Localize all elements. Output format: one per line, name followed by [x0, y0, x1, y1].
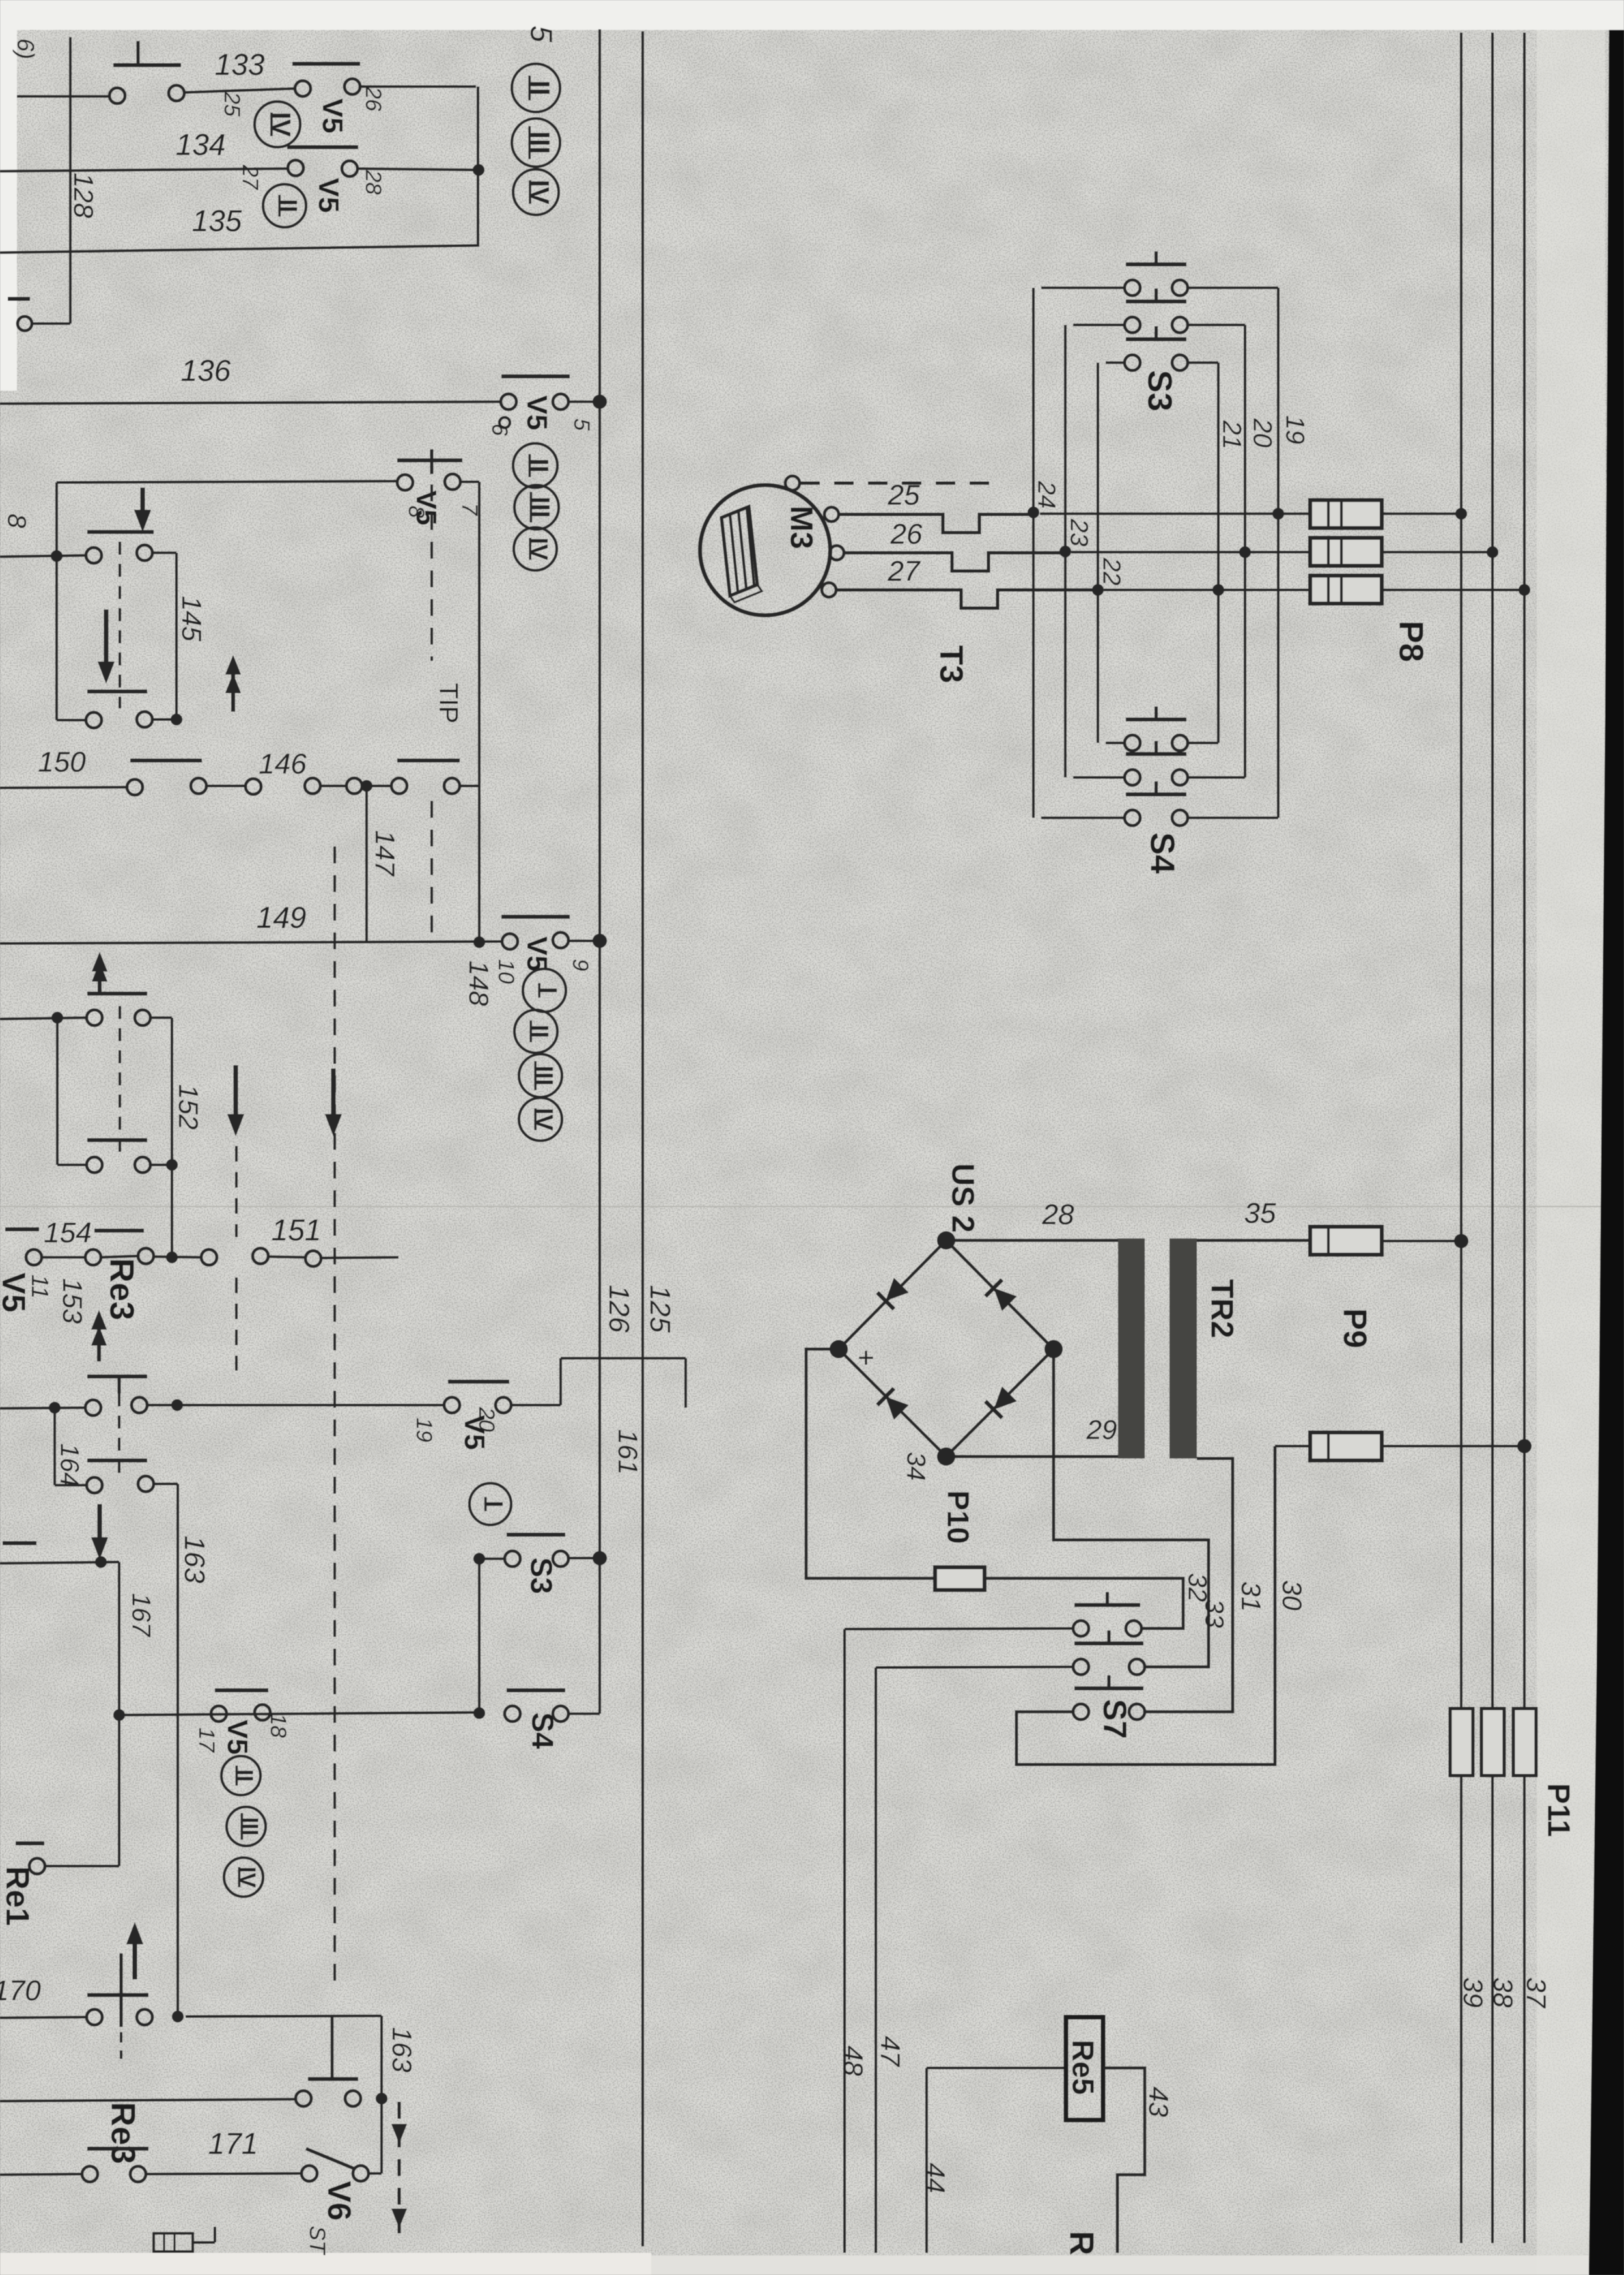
bus line 126 (B2 x=987): [641, 31, 644, 2246]
indicator circle IV (row133): [255, 102, 300, 147]
S7 row1 left wire: [845, 1628, 1073, 1629]
svg-text:25: 25: [219, 91, 244, 117]
label 126: [603, 1285, 635, 1333]
contact circle 1931e: [305, 1251, 321, 1266]
rail x271: [175, 553, 178, 719]
rail x273: [176, 1484, 179, 2018]
label 9 (1447): [568, 959, 593, 971]
bridge node bottom: [937, 1447, 955, 1466]
contact bar 133b: [292, 62, 360, 66]
svg-text:171: 171: [208, 2127, 259, 2160]
svg-text:23: 23: [1065, 518, 1092, 546]
label 154: [44, 1217, 91, 1249]
rail x183: [118, 1562, 120, 1715]
svg-text:21: 21: [1218, 420, 1246, 450]
wire P8-3 to bus: [1382, 589, 1524, 591]
contact circles 1931d: [201, 1248, 268, 1265]
label 10 (1447): [494, 959, 518, 984]
wire 1931 e: [321, 1257, 399, 1258]
indicator circle I (s3): [523, 969, 566, 1012]
fuse P11-1: [1450, 1709, 1473, 1776]
S3 right rail 19: [1277, 288, 1280, 818]
junction 134/box: [473, 164, 484, 176]
diode D3 (bottom-left): [877, 1388, 909, 1420]
contact circles 2158 (V5 19-20): [444, 1397, 511, 1413]
terminal circle row 497: [18, 316, 70, 331]
svg-text:32: 32: [1183, 1573, 1212, 1602]
label 35: [1244, 1197, 1276, 1229]
contact bar 134: [287, 145, 358, 149]
svg-text:26: 26: [890, 518, 923, 550]
bottom symbol ST: [154, 2227, 215, 2252]
bridge node left: [830, 1340, 848, 1358]
label V5 (1447): [521, 936, 553, 971]
junction 24: [1028, 507, 1039, 518]
svg-text:6: 6: [487, 424, 512, 436]
svg-text:S4: S4: [1143, 832, 1181, 874]
S4 row2 wires: [1073, 776, 1245, 779]
label 133: [215, 48, 265, 81]
wire 1447 to bus: [568, 940, 600, 942]
label 21: [1218, 420, 1246, 450]
svg-text:147: 147: [370, 830, 400, 877]
svg-text:ST: ST: [305, 2226, 329, 2255]
label 163 (rail): [178, 1535, 210, 1584]
S3 left rail 2: [1064, 325, 1067, 777]
wire 1105 corner: [152, 718, 176, 721]
dashed link from M3: [800, 482, 996, 485]
svg-text:133: 133: [215, 48, 265, 81]
wire 31 from TR2: [1145, 1459, 1233, 1712]
S3 row3 wires: [1106, 361, 1218, 364]
junction 3097/273: [172, 2011, 184, 2022]
contact bar 2281: [87, 1459, 147, 1462]
label 26: [890, 518, 923, 550]
label 22: [1097, 557, 1125, 585]
wire row 1208 left: [0, 787, 128, 788]
wire 35: [1197, 1239, 1310, 1242]
junction P8-2/38: [1487, 546, 1498, 558]
junction 1447/B1: [593, 934, 607, 948]
svg-text:S3: S3: [1140, 370, 1178, 412]
junction 1563/rail: [51, 1012, 63, 1024]
svg-text:163: 163: [178, 1535, 210, 1584]
rail x736: [478, 482, 481, 942]
svg-text:V5: V5: [521, 395, 553, 430]
label plus: [858, 1342, 875, 1374]
wire 43: [1103, 2068, 1145, 2253]
junction 20: [1239, 546, 1251, 558]
label 43: [1143, 2087, 1174, 2117]
svg-text:167: 167: [127, 1593, 156, 1638]
svg-text:125: 125: [644, 1285, 676, 1333]
contact circles 170: [87, 2009, 152, 2025]
label 17: [194, 1727, 219, 1753]
junction 2399: [95, 1556, 107, 1568]
contact circles 741 (V5 7-8): [397, 474, 460, 490]
diode D4 (bottom-right): [985, 1386, 1017, 1417]
contact bar 1931a: [5, 1227, 39, 1231]
svg-text:Re1: Re1: [0, 1866, 36, 1926]
wire 133 mid: [184, 89, 295, 92]
wire row 853 (8): [0, 555, 86, 557]
wire 134 right: [358, 169, 479, 170]
svg-text:27: 27: [238, 164, 262, 190]
svg-text:22: 22: [1097, 557, 1125, 585]
label S4: [1143, 832, 1181, 874]
S4 row1 wires: [1106, 742, 1218, 744]
svg-text:163: 163: [387, 2027, 417, 2073]
label V6: [321, 2181, 357, 2220]
left rail section2: [55, 482, 58, 720]
label S3 (lower): [524, 1557, 558, 1594]
junction 2634/183: [113, 1709, 125, 1721]
svg-text:19: 19: [412, 1417, 436, 1442]
label 27 (S1): [238, 164, 262, 190]
label 136: [181, 354, 231, 387]
label 28: [1042, 1199, 1074, 1231]
indicator circle IV (groupA): [513, 169, 559, 215]
svg-text:28: 28: [1042, 1199, 1074, 1231]
wire row 3097: [0, 2017, 87, 2018]
scanner black edge bar: [1589, 30, 1624, 2275]
terminal circle 6: [499, 417, 510, 428]
label 6 (136): [487, 424, 512, 436]
contact circles 1106: [86, 712, 152, 728]
svg-text:128: 128: [68, 173, 99, 219]
label P9: [1337, 1308, 1373, 1348]
bridge node right: [1044, 1340, 1063, 1358]
dashed actuator TIP lower: [430, 801, 433, 936]
wire P9-2 to bus: [1382, 1445, 1524, 1447]
svg-text:M3: M3: [784, 506, 819, 550]
contact circles 1563: [87, 1010, 150, 1026]
contact circles 2162: [85, 1397, 147, 1416]
label 125: [644, 1285, 676, 1333]
indicator circle IV (groupC): [519, 1098, 562, 1141]
label 11: [27, 1274, 53, 1298]
dashed actuator D2: [119, 542, 121, 708]
arrow down row853: [134, 488, 151, 532]
label 135: [192, 204, 242, 238]
wire 3338 mid: [146, 2173, 301, 2174]
S3 left rail 1: [1032, 288, 1035, 818]
rail x183 lower: [118, 1715, 120, 1866]
wire 1208 m3: [362, 785, 391, 787]
arrow down s3a: [227, 1065, 244, 1136]
svg-text:27: 27: [888, 555, 921, 587]
contact circles 1208b: [245, 778, 320, 794]
contact bar 1931b: [94, 1229, 144, 1233]
wire 128 vertical: [69, 37, 72, 324]
svg-text:T3: T3: [933, 645, 970, 683]
junction 21: [1212, 584, 1224, 596]
svg-text:5: 5: [524, 25, 558, 42]
dashed V6 actuator: [391, 2102, 407, 2245]
label 167: [127, 1593, 156, 1638]
dashed D3 below: [235, 1277, 238, 1371]
contact circles 2394 (S3): [505, 1551, 568, 1567]
svg-text:170: 170: [0, 1975, 41, 2007]
label V5 (2158): [458, 1415, 490, 1450]
label 147: [370, 830, 400, 877]
label 25 (S1): [219, 91, 244, 117]
motor terminal 27: [822, 583, 836, 597]
label R (cut): [1062, 2231, 1100, 2255]
wire 1789 right: [150, 1164, 172, 1166]
actuator tick 170: [120, 1953, 123, 2059]
wire 1931 b: [101, 1256, 138, 1257]
contact circles 134: [288, 160, 357, 176]
wire 1789 left: [57, 1164, 87, 1166]
wire Re1: [45, 1865, 119, 1867]
svg-text:S3: S3: [524, 1557, 558, 1594]
label S3: [1140, 370, 1178, 412]
indicator circle I (2310): [469, 1483, 511, 1525]
svg-text:V5: V5: [313, 178, 344, 213]
svg-text:24: 24: [1032, 481, 1059, 509]
wire 37 vertical bus: [1460, 33, 1463, 2243]
svg-text:37: 37: [1521, 1977, 1552, 2009]
svg-text:TR2: TR2: [1205, 1279, 1239, 1339]
contact bar 2394: [507, 1533, 565, 1537]
rail 147: [365, 786, 368, 942]
wire 38 vertical bus: [1491, 33, 1494, 2243]
wire P9-2 left: [1275, 1445, 1310, 1447]
wire 2281 right: [154, 1483, 178, 1485]
contact circles 133a: [109, 85, 184, 104]
contact circles 1789: [87, 1157, 150, 1173]
junction 1789/152: [166, 1159, 178, 1171]
label 161: [613, 1429, 643, 1475]
label 18: [266, 1713, 290, 1738]
svg-text:V5: V5: [521, 936, 553, 971]
label 153: [57, 1278, 88, 1324]
svg-text:161: 161: [613, 1429, 643, 1475]
label 32: [1183, 1573, 1212, 1602]
contact circles 133b: [295, 79, 360, 96]
svg-text:47: 47: [875, 2036, 906, 2067]
label 170: [0, 1975, 41, 2007]
S4 row3 wires: [1041, 816, 1278, 819]
chevron arrow s2: [225, 655, 241, 712]
bridge node top: [937, 1231, 955, 1249]
S3 row2 wires: [1073, 324, 1245, 326]
contact circles 2632 (S4): [505, 1706, 568, 1722]
contact circles 136 (V5 5-6): [501, 394, 568, 410]
svg-text:P8: P8: [1392, 621, 1429, 662]
wire 19 to P8: [1040, 512, 1310, 515]
contact bar 2632b: [507, 1688, 565, 1692]
label 146: [259, 748, 307, 780]
label 152: [173, 1084, 204, 1130]
junction 2394/B1: [593, 1551, 607, 1565]
svg-text:164: 164: [55, 1444, 84, 1487]
junction P9-2/39: [1517, 1439, 1532, 1453]
junction P8-3/39: [1519, 584, 1530, 596]
wire 25 with T3 element: [839, 514, 1031, 533]
svg-text:18: 18: [266, 1713, 290, 1738]
white bottom margin: [0, 2253, 1589, 2275]
contact bar 741: [397, 449, 462, 474]
motor M3 hatch symbol: [721, 507, 762, 602]
label S7: [1097, 1699, 1133, 1738]
wire 1931 a: [42, 1256, 85, 1259]
svg-text:136: 136: [181, 354, 231, 387]
arrow down mid s2: [98, 609, 115, 684]
left edge bar 2370: [3, 1541, 36, 1545]
contact bar 853: [87, 530, 154, 534]
indicator circle II (groupB): [513, 443, 557, 488]
indicator circle II (row134): [263, 184, 306, 227]
wire row 1563: [0, 1018, 87, 1019]
wire 1208 m1: [206, 785, 245, 787]
contact bar 1447: [501, 915, 570, 919]
S3 contact row2: [1125, 288, 1188, 333]
wire 2394 left: [479, 1557, 505, 1560]
wire 136: [0, 402, 500, 404]
diode D2 (top-right): [985, 1279, 1017, 1311]
label 134: [176, 128, 226, 161]
svg-text:19: 19: [1281, 415, 1309, 445]
svg-text:P9: P9: [1337, 1308, 1373, 1348]
label 20: [1248, 418, 1277, 448]
contact circles 853: [86, 545, 152, 563]
label 23: [1065, 518, 1092, 546]
svg-text:29: 29: [1086, 1414, 1117, 1445]
label 28 (S1): [361, 169, 385, 195]
wire row 3338: [0, 2174, 82, 2175]
svg-text:25: 25: [888, 479, 920, 511]
label P8: [1392, 621, 1429, 662]
wire P10 to S7: [985, 1578, 1183, 1628]
junction 136/B1: [593, 395, 607, 409]
label V5 (136): [521, 395, 553, 430]
svg-text:151: 151: [272, 1213, 322, 1247]
label 20: [474, 1406, 499, 1432]
S7 row2 left wire: [876, 1667, 1073, 1668]
indicator circle II (groupC): [514, 1010, 557, 1053]
contact bar 163/V6: [308, 2077, 358, 2081]
label V5 (134): [313, 178, 344, 213]
contact bar 2162: [87, 1376, 147, 1393]
indicator circle III (groupB): [514, 485, 559, 529]
motor terminal 26: [830, 546, 844, 560]
label 8 (741): [404, 506, 428, 518]
svg-text:28: 28: [361, 169, 385, 195]
svg-text:35: 35: [1244, 1197, 1276, 1229]
svg-text:153: 153: [57, 1278, 88, 1324]
svg-text:P11: P11: [1541, 1783, 1576, 1837]
wire 163 actuator solid: [331, 2017, 334, 2079]
svg-text:TIP: TIP: [434, 683, 463, 723]
label 5 (groupA): [524, 25, 558, 42]
wire 1106 left corner: [57, 719, 86, 721]
wire 29: [946, 1455, 1119, 1459]
wire 1931 d: [268, 1257, 305, 1257]
svg-text:152: 152: [173, 1084, 204, 1130]
svg-text:17: 17: [194, 1727, 219, 1753]
contact circles 2632 (V5 17-18): [211, 1705, 270, 1722]
indicator circle II (groupA): [512, 64, 560, 112]
svg-text:126: 126: [603, 1285, 635, 1333]
label 145: [176, 596, 207, 642]
junction 2632/736: [473, 1707, 485, 1719]
label 128: [68, 173, 99, 219]
svg-text:10: 10: [494, 959, 518, 984]
scribble mark top-left: [12, 38, 39, 59]
dashed actuator D3: [235, 1146, 238, 1237]
junction 23: [1059, 546, 1071, 557]
rail x586: [380, 2016, 383, 2173]
switch blade V6: [306, 2149, 355, 2169]
label 39: [1458, 1977, 1489, 2008]
wire 39 vertical bus: [1523, 33, 1526, 2243]
TR2 secondary bar: [1169, 1238, 1197, 1459]
svg-text:135: 135: [192, 204, 242, 238]
wire 30 from P9-2: [1016, 1446, 1275, 1765]
white top margin: [0, 0, 1624, 30]
junction 2162/272: [171, 1399, 183, 1411]
contact circles 1208a: [127, 778, 206, 795]
label P10: [941, 1490, 975, 1544]
contact circles 1208d: [391, 778, 460, 794]
junction 3226/586: [376, 2093, 387, 2104]
wire 1931 c: [154, 1257, 201, 1257]
wire 134: [0, 169, 287, 171]
box 161 left: [559, 1358, 562, 1405]
diode D1 (top-left): [877, 1277, 909, 1309]
svg-text:V5: V5: [221, 1720, 253, 1755]
wire 21 to P8: [1104, 589, 1310, 591]
label 8 (row853): [3, 514, 31, 529]
fuse P9-2: [1310, 1432, 1382, 1460]
svg-text:154: 154: [44, 1217, 91, 1249]
contact bar 136: [501, 374, 570, 378]
wire 135: [0, 245, 478, 253]
label 171: [208, 2127, 259, 2160]
contact bar above 497: [8, 297, 30, 301]
label 164: [55, 1444, 84, 1487]
bus line 125 (B1 x=921): [598, 29, 601, 1714]
svg-text:48: 48: [838, 2046, 869, 2076]
wire 2394 right: [568, 1557, 600, 1559]
junction 1931/152: [166, 1251, 178, 1263]
wire 48: [843, 1629, 846, 2253]
wire 27 with T3 element: [836, 590, 1095, 608]
label V5 (741): [410, 490, 442, 525]
wire row 2162: [0, 1408, 85, 1408]
label T3: [933, 645, 970, 683]
contact bar 2632a: [215, 1688, 268, 1692]
svg-text:5: 5: [569, 419, 594, 431]
svg-text:134: 134: [176, 128, 226, 161]
label 7 (741): [457, 503, 482, 516]
wire 136 to bus: [568, 400, 600, 403]
label 24: [1032, 481, 1059, 509]
contact bar row133 first: [113, 41, 181, 65]
wire row 741: [57, 481, 397, 482]
contact circle 1208c: [346, 778, 362, 794]
wire from bridge left node: [806, 1349, 935, 1578]
dashed actuator TIP: [430, 484, 433, 661]
label S4 (lower): [525, 1712, 559, 1750]
motor M3 circle: [700, 485, 830, 615]
junction 2394/736: [473, 1553, 485, 1565]
motor terminal 25: [824, 507, 839, 522]
junction 19: [1272, 508, 1284, 520]
TR2 primary bar: [1118, 1238, 1145, 1459]
